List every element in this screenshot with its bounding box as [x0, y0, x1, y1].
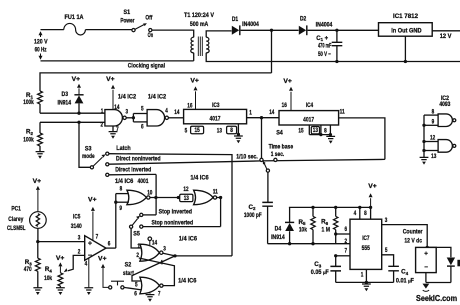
ground (R4): [56, 288, 65, 290]
svg-text:13: 13: [217, 128, 222, 135]
svg-text:14: 14: [114, 104, 119, 111]
svg-text:12 V dc: 12 V dc: [404, 237, 422, 244]
svg-text:IC5: IC5: [73, 214, 81, 221]
wire: counter to D5: [427, 247, 451, 257]
wire: R1 to gate input pin 1: [40, 112, 105, 114]
svg-text:3140: 3140: [71, 223, 82, 230]
svg-text:D1: D1: [232, 16, 239, 23]
resistor R5 10k: [312, 207, 314, 216]
svg-text:100k: 100k: [23, 137, 34, 144]
svg-text:470: 470: [24, 266, 32, 273]
svg-text:8: 8: [324, 127, 327, 134]
svg-text:15: 15: [195, 127, 201, 134]
power V+ to IC5 pin 7: [92, 212, 94, 241]
svg-text:10k: 10k: [44, 275, 52, 282]
svg-text:12: 12: [183, 186, 188, 193]
switch S1 Power with Off/On positions: [132, 29, 135, 32]
svg-text:Stop noninverted: Stop noninverted: [152, 219, 194, 226]
svg-text:V+: V+: [33, 178, 42, 185]
svg-text:S4: S4: [276, 129, 283, 136]
resistor R6 1 M: [335, 207, 337, 216]
svg-text:Off: Off: [145, 14, 153, 21]
junction: clocking-signal tap: [270, 29, 273, 32]
counter IC4 4017: [279, 111, 339, 125]
svg-text:T1 120:24 V: T1 120:24 V: [184, 12, 215, 19]
svg-text:1/10 sec.: 1/10 sec.: [236, 154, 258, 161]
wire: pin 6 link: [336, 233, 350, 235]
svg-text:16: 16: [282, 102, 287, 109]
wire: op-amp output up to gate inputs 8,9: [116, 193, 129, 195]
svg-text:100k: 100k: [23, 99, 34, 106]
svg-text:PC1: PC1: [11, 206, 21, 213]
capacitor C2 bottom to 555 trigger line: [268, 243, 350, 245]
svg-text:11: 11: [340, 109, 345, 116]
svg-text:555: 555: [362, 245, 371, 252]
svg-text:16: 16: [187, 102, 192, 109]
svg-text:60 Hz: 60 Hz: [35, 47, 48, 54]
svg-text:13: 13: [431, 153, 436, 160]
wire: gate 11 output node: [217, 197, 221, 199]
svg-text:1/4 IC6: 1/4 IC6: [178, 277, 197, 284]
resistor R2 100k: [39, 122, 41, 133]
capacitor C4 0.01 uF: [388, 266, 399, 271]
svg-text:Time base: Time base: [269, 144, 294, 151]
svg-text:14: 14: [174, 109, 179, 116]
svg-text:9: 9: [432, 119, 435, 126]
diode D3 IN914 clamp to V+: [78, 88, 80, 94]
svg-text:12 V: 12 V: [440, 33, 452, 40]
nand gate 1/4 IC2 (pins 1,2,3): [105, 110, 123, 126]
svg-text:D2: D2: [300, 16, 307, 23]
power V+ to IC3 pin 16: [195, 91, 197, 109]
svg-text:7: 7: [96, 234, 99, 241]
wire: R4 wiper to op-amp pin 2: [68, 255, 85, 270]
wire: direct-inverted / stop-inverted tap: [155, 174, 157, 215]
svg-text:IC7: IC7: [362, 235, 370, 242]
svg-text:Clocking signal: Clocking signal: [128, 63, 165, 70]
capacitor C1 470 mF 50 V: [335, 29, 338, 32]
svg-text:6: 6: [345, 226, 348, 233]
svg-text:+: +: [88, 239, 92, 248]
svg-text:5: 5: [385, 247, 388, 254]
svg-text:4017: 4017: [303, 116, 314, 123]
svg-text:15: 15: [298, 127, 303, 134]
svg-text:0.01 μF: 0.01 μF: [396, 277, 414, 284]
svg-text:IC3: IC3: [212, 102, 220, 109]
ground (IC6 pin 7): [149, 293, 151, 294]
svg-text:mode: mode: [82, 153, 95, 160]
diode D5 flyback: [447, 258, 455, 266]
svg-text:IN4004: IN4004: [316, 21, 333, 28]
svg-text:6: 6: [141, 123, 144, 130]
svg-text:500 mA: 500 mA: [190, 21, 209, 28]
wire: counter negative to ground: [425, 273, 427, 283]
svg-text:1/4 IC2: 1/4 IC2: [148, 93, 167, 100]
svg-text:4: 4: [85, 261, 88, 268]
wire: spare gate inputs bus to ground: [423, 115, 425, 157]
svg-text:IC1 7812: IC1 7812: [393, 13, 418, 20]
svg-text:D4: D4: [275, 226, 282, 233]
svg-text:3: 3: [126, 109, 129, 116]
wire: S2 to latch input pin 6: [124, 287, 142, 290]
regulator IC1 7812: [379, 23, 433, 37]
ground (IC5 pin 4): [88, 258, 90, 288]
svg-text:470 mF: 470 mF: [318, 43, 331, 50]
svg-text:9: 9: [119, 205, 122, 212]
ground (IC2 spare inputs): [420, 157, 429, 159]
svg-text:1/4 IC6: 1/4 IC6: [115, 178, 134, 185]
svg-text:−: −: [424, 264, 428, 271]
ground (R2): [36, 152, 45, 154]
svg-text:Clarey: Clarey: [8, 216, 23, 223]
wire: IC3 pin 1 to IC4 pin 14: [247, 117, 279, 119]
svg-text:4017: 4017: [210, 115, 221, 122]
svg-text:10: 10: [147, 190, 152, 197]
svg-text:FU1 1A: FU1 1A: [65, 14, 84, 21]
svg-text:3: 3: [163, 245, 166, 252]
ground (IC4 pin 8): [330, 135, 332, 137]
svg-text:1: 1: [137, 243, 140, 250]
terminal: IC6 pin 14 V+ circle: [148, 237, 152, 241]
svg-text:50 V −: 50 V −: [318, 51, 331, 58]
svg-text:1: 1: [101, 108, 104, 115]
svg-text:V+: V+: [56, 255, 65, 262]
svg-text:S3: S3: [85, 146, 92, 153]
svg-text:On: On: [148, 32, 154, 39]
svg-text:start: start: [123, 270, 135, 277]
svg-text:Stop inverted: Stop inverted: [159, 209, 192, 216]
wire: gate1 out to gate2 inputs: [126, 117, 133, 119]
svg-text:V+: V+: [368, 183, 377, 190]
svg-text:S1: S1: [124, 9, 131, 16]
wire: S4 common to C2: [267, 172, 269, 202]
svg-text:7: 7: [158, 290, 161, 297]
svg-text:V+: V+: [88, 197, 97, 204]
svg-text:7: 7: [345, 248, 348, 255]
svg-text:D3: D3: [62, 91, 69, 98]
svg-text:1/4 IC6: 1/4 IC6: [179, 236, 198, 243]
svg-text:2: 2: [78, 249, 81, 256]
svg-text:8: 8: [120, 186, 123, 193]
svg-text:1/4 IC2: 1/4 IC2: [118, 93, 137, 100]
ground (counter): [423, 284, 430, 289]
capacitor C3 0.05 uF: [330, 266, 341, 271]
fuse FU1 1A: [64, 23, 86, 35]
svg-text:11: 11: [213, 188, 218, 195]
svg-text:Direct noninverted: Direct noninverted: [116, 156, 161, 163]
ground (R3): [33, 288, 42, 290]
counter IC3 4017: [184, 109, 247, 123]
svg-text:13: 13: [184, 195, 190, 202]
svg-text:4: 4: [165, 108, 168, 115]
svg-text:4: 4: [354, 210, 357, 217]
svg-text:1 M: 1 M: [321, 227, 330, 234]
op-amp IC5 3140: [85, 236, 106, 261]
capacitor C2 1000 pF: [262, 202, 273, 206]
resistor R1 100k: [38, 91, 43, 104]
svg-text:12: 12: [430, 134, 435, 141]
svg-text:5: 5: [135, 282, 138, 289]
svg-text:C1 +: C1 +: [316, 35, 328, 42]
wire: transformer secondary top to rectifier: [206, 31, 231, 37]
svg-text:6: 6: [108, 241, 111, 248]
svg-text:Latch: Latch: [116, 145, 131, 152]
svg-text:14: 14: [152, 240, 157, 247]
svg-text:8: 8: [432, 108, 435, 115]
svg-text:6: 6: [134, 291, 137, 298]
diode D4 IN914: [289, 207, 291, 222]
AC source 120 V 60 Hz terminal arrows: [40, 32, 42, 37]
svg-text:5: 5: [185, 128, 188, 135]
wire: latch A output: [163, 253, 175, 256]
svg-text:4093: 4093: [439, 101, 450, 108]
svg-text:CLSM5L: CLSM5L: [7, 225, 26, 232]
svg-text:2: 2: [345, 238, 348, 245]
wire: gate input pin 2 / R2 node: [40, 121, 105, 123]
svg-text:S5: S5: [133, 231, 140, 238]
svg-text:IN4004: IN4004: [242, 21, 259, 28]
timer IC7 555: [350, 219, 382, 269]
power V+ and pins 4,8: [359, 207, 361, 219]
wire: AC line bottom (neutral): [41, 60, 194, 62]
wire: latch cross-coupling out4 to in2: [139, 258, 175, 286]
svg-text:14: 14: [269, 109, 274, 116]
svg-text:120 V: 120 V: [34, 38, 48, 45]
power V+ to IC4 pin 16: [290, 92, 292, 111]
transformer T1 120:24 V 500 mA: [191, 37, 194, 53]
svg-text:3: 3: [78, 234, 81, 241]
svg-text:1: 1: [249, 110, 252, 117]
ground (IC3 pin 8): [234, 136, 243, 138]
wire: latch cross-coupling out3 to in5: [132, 256, 175, 281]
resistor R3 470: [37, 242, 39, 259]
power V+ to IC2 pin 14: [112, 90, 114, 110]
svg-text:3: 3: [385, 217, 388, 224]
wire: S5 common to latch input pin 1: [131, 228, 141, 248]
svg-text:S2: S2: [125, 262, 132, 269]
wire: D1 cathode to D2 anode: [241, 29, 299, 31]
svg-text:1000 pF: 1000 pF: [244, 212, 262, 219]
svg-text:V+: V+: [190, 78, 199, 85]
svg-text:0.05 μF: 0.05 μF: [311, 269, 329, 276]
diode D1 IN4004: [232, 26, 239, 35]
wire: IC1 GND lead: [404, 36, 406, 61]
ground (IC2 pin 7): [112, 126, 114, 131]
svg-text:Counter: Counter: [403, 229, 423, 236]
svg-text:+: +: [424, 250, 428, 257]
svg-text:V+: V+: [98, 256, 107, 263]
wire: D3/inputs node down to S3 common: [79, 122, 90, 167]
svg-text:2: 2: [101, 122, 104, 129]
svg-text:V+: V+: [72, 76, 81, 83]
wire: gate2 out to IC3 pin 14: [169, 117, 184, 119]
diode D2 IN4004: [299, 26, 306, 35]
svg-text:4: 4: [160, 259, 163, 266]
ground (IC7 pin 1): [362, 284, 371, 286]
wire: 555 ground bus pin 1: [336, 281, 394, 283]
svg-text:7: 7: [116, 126, 119, 133]
svg-text:1/4 IC6: 1/4 IC6: [190, 175, 209, 182]
svg-text:Direct inverted: Direct inverted: [115, 166, 151, 173]
wire: gate 10 output node: [150, 197, 178, 199]
nand gate 1/4 IC2 (pins 5,6,4): [147, 110, 165, 126]
wire: 1/10 sec tap from IC3 pin 1: [261, 118, 263, 159]
svg-text:SeekIC.com: SeekIC.com: [416, 294, 457, 303]
wire: 12 V output: [432, 30, 460, 32]
svg-text:V+: V+: [283, 78, 292, 85]
svg-text:1 sec.: 1 sec.: [271, 151, 285, 158]
svg-text:4001: 4001: [138, 178, 149, 185]
svg-text:10k: 10k: [299, 227, 307, 234]
svg-text:IN914: IN914: [271, 234, 285, 241]
wire: secondary-side common rail: [206, 53, 460, 62]
svg-text:13: 13: [313, 127, 319, 134]
wire: clocking signal (rectified tap down to R1): [271, 30, 273, 73]
svg-text:8: 8: [364, 210, 367, 217]
wire: PC1 node to op-amp pin 3: [36, 240, 39, 243]
svg-text:IC4: IC4: [306, 102, 314, 109]
wire: D2 cathode to regulator input: [308, 29, 379, 31]
svg-text:5: 5: [141, 106, 144, 113]
svg-text:8: 8: [230, 127, 233, 134]
svg-text:IN914: IN914: [58, 99, 72, 106]
wire: 555 V+ top rail: [289, 206, 371, 208]
wire: AC line top (hot): [41, 29, 64, 31]
svg-text:V+: V+: [106, 76, 115, 83]
svg-text:In Out GND: In Out GND: [391, 27, 422, 34]
wire: op-amp output pin 6: [106, 247, 116, 249]
svg-text:Power: Power: [120, 17, 134, 24]
svg-text:1: 1: [361, 272, 364, 279]
